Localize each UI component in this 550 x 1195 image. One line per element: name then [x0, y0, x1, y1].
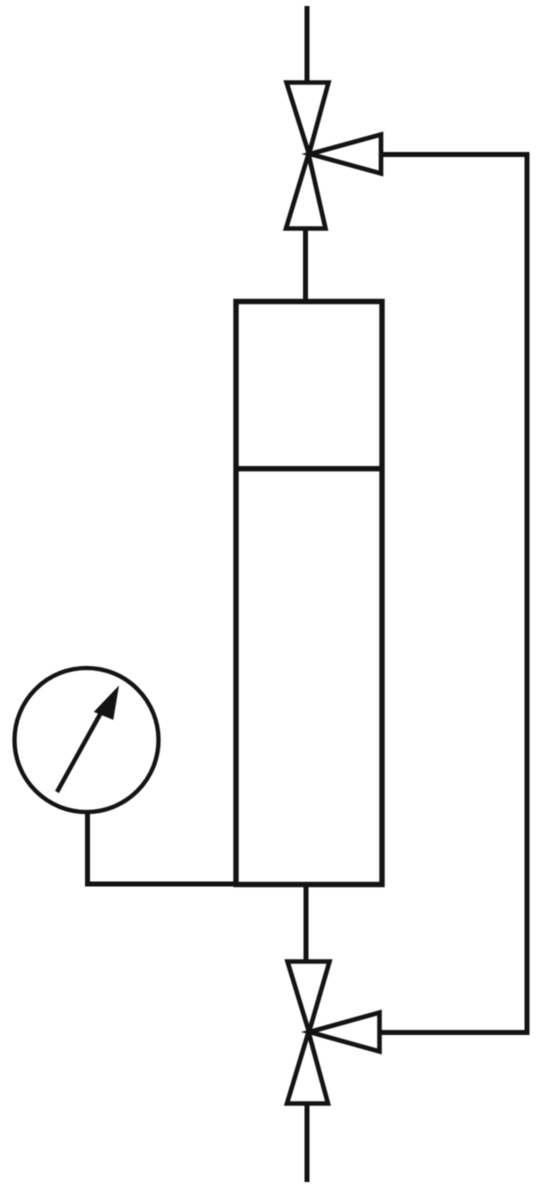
- wire right riser: [525, 152, 530, 1035]
- gauge needle: [57, 709, 103, 792]
- wire riser to valve V2: [381, 1030, 530, 1035]
- column liquid level line: [234, 466, 385, 471]
- wire bottom outlet: [305, 1105, 310, 1182]
- wire gauge drop: [85, 810, 90, 887]
- column vessel: [236, 302, 382, 885]
- wire column drain: [304, 882, 309, 961]
- wire valve V1 to column: [303, 228, 308, 302]
- gauge PI circle: [15, 668, 159, 812]
- valve V2 lower triangle: [287, 1032, 328, 1104]
- wire top inlet: [305, 6, 310, 84]
- wire valve V1 to riser: [381, 152, 530, 157]
- valve V1 side triangle: [310, 135, 381, 174]
- valve V1 upper triangle: [287, 83, 329, 155]
- wire gauge to column bottom: [86, 882, 239, 887]
- valve V2 side triangle: [310, 1013, 380, 1052]
- valve V1 lower triangle: [286, 154, 326, 229]
- valve V2 upper triangle: [288, 962, 330, 1033]
